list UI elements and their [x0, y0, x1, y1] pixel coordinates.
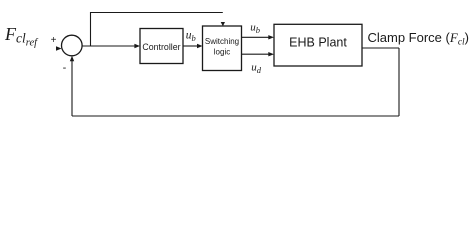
wire branch up and over to Switching logic top [91, 13, 223, 47]
svg-text:Controller: Controller [142, 42, 180, 52]
block EHB Plant [274, 24, 362, 66]
svg-text:+: + [51, 35, 57, 46]
svg-text:logic: logic [214, 47, 230, 56]
svg-text:Switching: Switching [205, 37, 239, 46]
svg-text:-: - [63, 62, 67, 74]
wire ud Switching logic to EHB Plant [242, 53, 269, 55]
svg-text:EHB Plant: EHB Plant [289, 36, 347, 50]
wire ub Switching logic to EHB Plant [242, 36, 269, 38]
wire feedback bottom horizontal [72, 115, 399, 117]
block Controller [140, 29, 183, 64]
wire feedback right vertical [398, 48, 400, 116]
wire Controller to Switching logic [183, 45, 197, 47]
svg-text:Clamp Force (Fcl): Clamp Force (Fcl) [368, 30, 470, 48]
wire feedback left vertical up to summing junction [71, 61, 73, 116]
summing junction [62, 35, 83, 56]
block Switching logic [203, 26, 242, 71]
wire arrow into summing junction [56, 46, 62, 51]
wire summing junction to Controller [82, 45, 134, 47]
node Fcl_ref reference input label [4, 24, 39, 49]
wire EHB Plant output [362, 47, 399, 49]
